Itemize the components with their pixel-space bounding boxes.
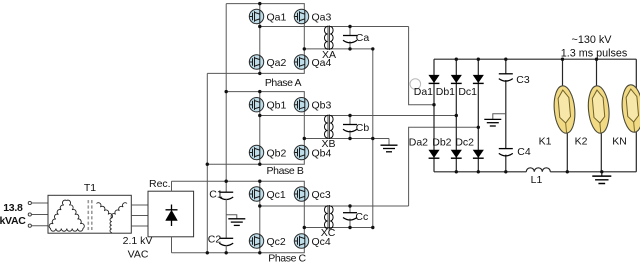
svg-text:XA: XA <box>322 49 336 61</box>
wire: input line 2 <box>32 214 49 216</box>
wire: phase B right midpoint to XB primary bottom <box>304 138 389 140</box>
diode Db1 <box>451 75 462 83</box>
klystron K1 <box>552 85 576 134</box>
wire: input line 3 <box>32 225 49 227</box>
wire: KN cathode drop <box>635 128 637 172</box>
svg-text:Cb: Cb <box>356 122 370 134</box>
transistor Qc2 <box>249 234 263 248</box>
wire: phase A top rail <box>226 4 304 10</box>
wire: Rec positive output up <box>171 181 173 191</box>
capacitor Cb stub <box>349 116 351 139</box>
wire: phase A right midpoint to XA primary bottom <box>304 48 373 50</box>
wire: phase B bottom rail <box>207 160 304 165</box>
diode Da2 <box>429 150 440 158</box>
wire: XB ground stub <box>388 139 390 145</box>
svg-text:K1: K1 <box>539 136 552 148</box>
svg-text:Qb2: Qb2 <box>267 147 287 159</box>
transformer T1 wye winding <box>97 203 128 233</box>
svg-text:Rec.: Rec. <box>149 178 171 190</box>
capacitor Cb <box>343 125 357 132</box>
wire: phase B left leg <box>259 92 261 165</box>
wire: Dc leg <box>477 59 479 172</box>
svg-text:Qa2: Qa2 <box>267 57 287 69</box>
inductor L1 <box>526 168 550 172</box>
wire: K1 cathode drop <box>566 128 568 172</box>
capacitor C1 <box>219 192 233 199</box>
svg-text:C4: C4 <box>517 146 531 158</box>
wire: K1 anode drop <box>562 59 564 88</box>
svg-text:Qc3: Qc3 <box>312 189 331 201</box>
svg-text:Db2: Db2 <box>432 136 451 148</box>
wire: Db leg <box>455 59 457 172</box>
svg-text:Qb3: Qb3 <box>312 100 332 112</box>
svg-text:VAC: VAC <box>128 249 149 261</box>
transistor Qb2 <box>249 145 263 159</box>
node: faint circle near Da1 <box>410 79 421 90</box>
svg-text:~130 kV: ~130 kV <box>572 34 613 46</box>
transformer T1 delta winding <box>49 200 84 231</box>
wire: positive bus vertical upper <box>225 4 227 193</box>
wire: KN anode drop <box>635 59 637 88</box>
svg-text:Phase C: Phase C <box>268 253 306 263</box>
svg-text:C3: C3 <box>516 74 530 86</box>
svg-text:L1: L1 <box>531 174 543 186</box>
wire: ground tap C1C2 <box>226 215 237 219</box>
svg-text:Ca: Ca <box>356 32 370 44</box>
svg-text:XB: XB <box>321 138 335 150</box>
svg-text:Cc: Cc <box>355 211 368 223</box>
transformer XB windings <box>325 115 334 140</box>
wire: bus below C2 <box>225 245 227 253</box>
wire: ground tap C3C4 <box>493 114 506 120</box>
wire: phase C right leg <box>303 188 305 248</box>
ground (output bottom rail) <box>601 172 603 176</box>
wire: Rec negative output down <box>171 237 173 253</box>
wire: phase A left midpoint to XA primary top <box>260 26 409 28</box>
transistor Qb3 <box>294 98 308 112</box>
capacitor Ca <box>343 36 357 43</box>
svg-text:C2: C2 <box>208 233 222 245</box>
wire: negative bus vertical <box>206 73 208 252</box>
svg-text:Da2: Da2 <box>409 136 428 148</box>
capacitor Ca stub <box>349 27 351 49</box>
svg-text:Dc2: Dc2 <box>455 136 474 148</box>
svg-text:K2: K2 <box>575 136 588 148</box>
diode Da1 <box>429 75 440 83</box>
wire: Da leg <box>433 59 435 172</box>
diode Dc1 <box>473 75 484 83</box>
svg-text:KN: KN <box>612 136 627 148</box>
transistor Qc1 <box>249 187 263 201</box>
transformer XC windings <box>325 205 334 230</box>
wire: T1 to Rec line 3 <box>131 225 148 227</box>
svg-text:Qc1: Qc1 <box>267 189 286 201</box>
transistor Qb4 <box>294 145 308 159</box>
svg-text:Dc1: Dc1 <box>458 86 477 98</box>
input terminal 1 <box>28 201 31 204</box>
capacitor C3 <box>499 74 513 81</box>
capacitor C4 <box>499 149 513 156</box>
svg-text:T1: T1 <box>84 182 96 194</box>
svg-text:Phase B: Phase B <box>267 165 304 177</box>
wire: HV top rail <box>434 58 636 60</box>
svg-text:kVAC: kVAC <box>0 215 26 227</box>
wire: input line 1 <box>32 202 49 204</box>
capacitor Cc stub <box>349 206 351 228</box>
svg-text:C1: C1 <box>209 188 223 200</box>
diode Db2 <box>451 150 462 158</box>
transformer XA windings <box>325 26 334 51</box>
svg-text:1.3 ms pulses: 1.3 ms pulses <box>561 48 628 60</box>
wire: phase C left midpoint to XC primary top <box>260 205 409 207</box>
transistor Qa4 <box>294 55 308 69</box>
rectifier Rec box <box>148 191 194 237</box>
capacitor Cc <box>343 213 357 220</box>
svg-text:Da1: Da1 <box>414 86 433 98</box>
transformer T1 box <box>48 195 131 233</box>
input terminal 2 <box>28 213 31 216</box>
wire: K2 cathode drop <box>600 128 602 172</box>
transistor Qc4 <box>294 234 308 248</box>
transformer T1 core <box>88 200 92 230</box>
wire: phase A right leg <box>303 10 305 69</box>
wire: DC positive rail to phase C top <box>172 181 305 187</box>
transistor Qa2 <box>249 55 263 69</box>
wire: K2 anode drop <box>596 59 598 88</box>
transistor Qa3 <box>294 9 308 23</box>
rectifier diode <box>166 205 178 227</box>
wire: HV bottom rail right part <box>550 171 636 173</box>
wire: phase C left leg <box>259 181 261 253</box>
wire: C3 C4 chain vertical <box>505 59 507 172</box>
wire: phase B left midpoint to XB primary top <box>260 115 457 117</box>
svg-text:Qa3: Qa3 <box>312 11 332 23</box>
wire: DC negative rail bottom (phase C bottom rail) <box>172 248 305 253</box>
wire: XA secondary top drop <box>409 27 434 105</box>
wire: phase B right leg <box>303 98 305 160</box>
diode Dc2 <box>473 150 484 158</box>
svg-text:Qa1: Qa1 <box>267 11 287 23</box>
svg-text:Db1: Db1 <box>436 86 455 98</box>
transistor Qb1 <box>249 98 263 112</box>
wire: T1 to Rec line 2 <box>131 215 148 217</box>
svg-text:13.8: 13.8 <box>3 202 23 214</box>
svg-text:XC: XC <box>321 227 336 239</box>
transistor Qa1 <box>249 9 263 23</box>
wire: phase C right midpoint to XC primary bottom <box>304 227 373 229</box>
svg-text:Phase A: Phase A <box>265 77 302 89</box>
capacitor C2 <box>219 238 233 245</box>
klystron KN <box>620 84 640 133</box>
wire: XC secondary top riser <box>409 127 479 206</box>
ground (C1/C2 midpoint) <box>228 219 245 226</box>
ground (C3/C4 midpoint) <box>484 119 501 126</box>
wire: T1 to Rec line 1 <box>131 204 148 206</box>
wire: XA/XB/XC secondary common vertical <box>372 49 374 228</box>
wire: phase A left leg <box>259 4 261 74</box>
wire: bus mid segment <box>225 199 227 239</box>
wire: HV bottom rail left part <box>434 171 526 173</box>
klystron K2 <box>586 85 610 134</box>
ground (XB secondary) <box>381 145 398 152</box>
input terminal 3 <box>28 224 31 227</box>
wire: phase A bottom rail <box>207 69 304 74</box>
wire: phase B top rail <box>226 92 304 98</box>
svg-text:Qb1: Qb1 <box>267 100 287 112</box>
svg-text:Qc2: Qc2 <box>267 236 286 248</box>
transistor Qc3 <box>294 187 308 201</box>
